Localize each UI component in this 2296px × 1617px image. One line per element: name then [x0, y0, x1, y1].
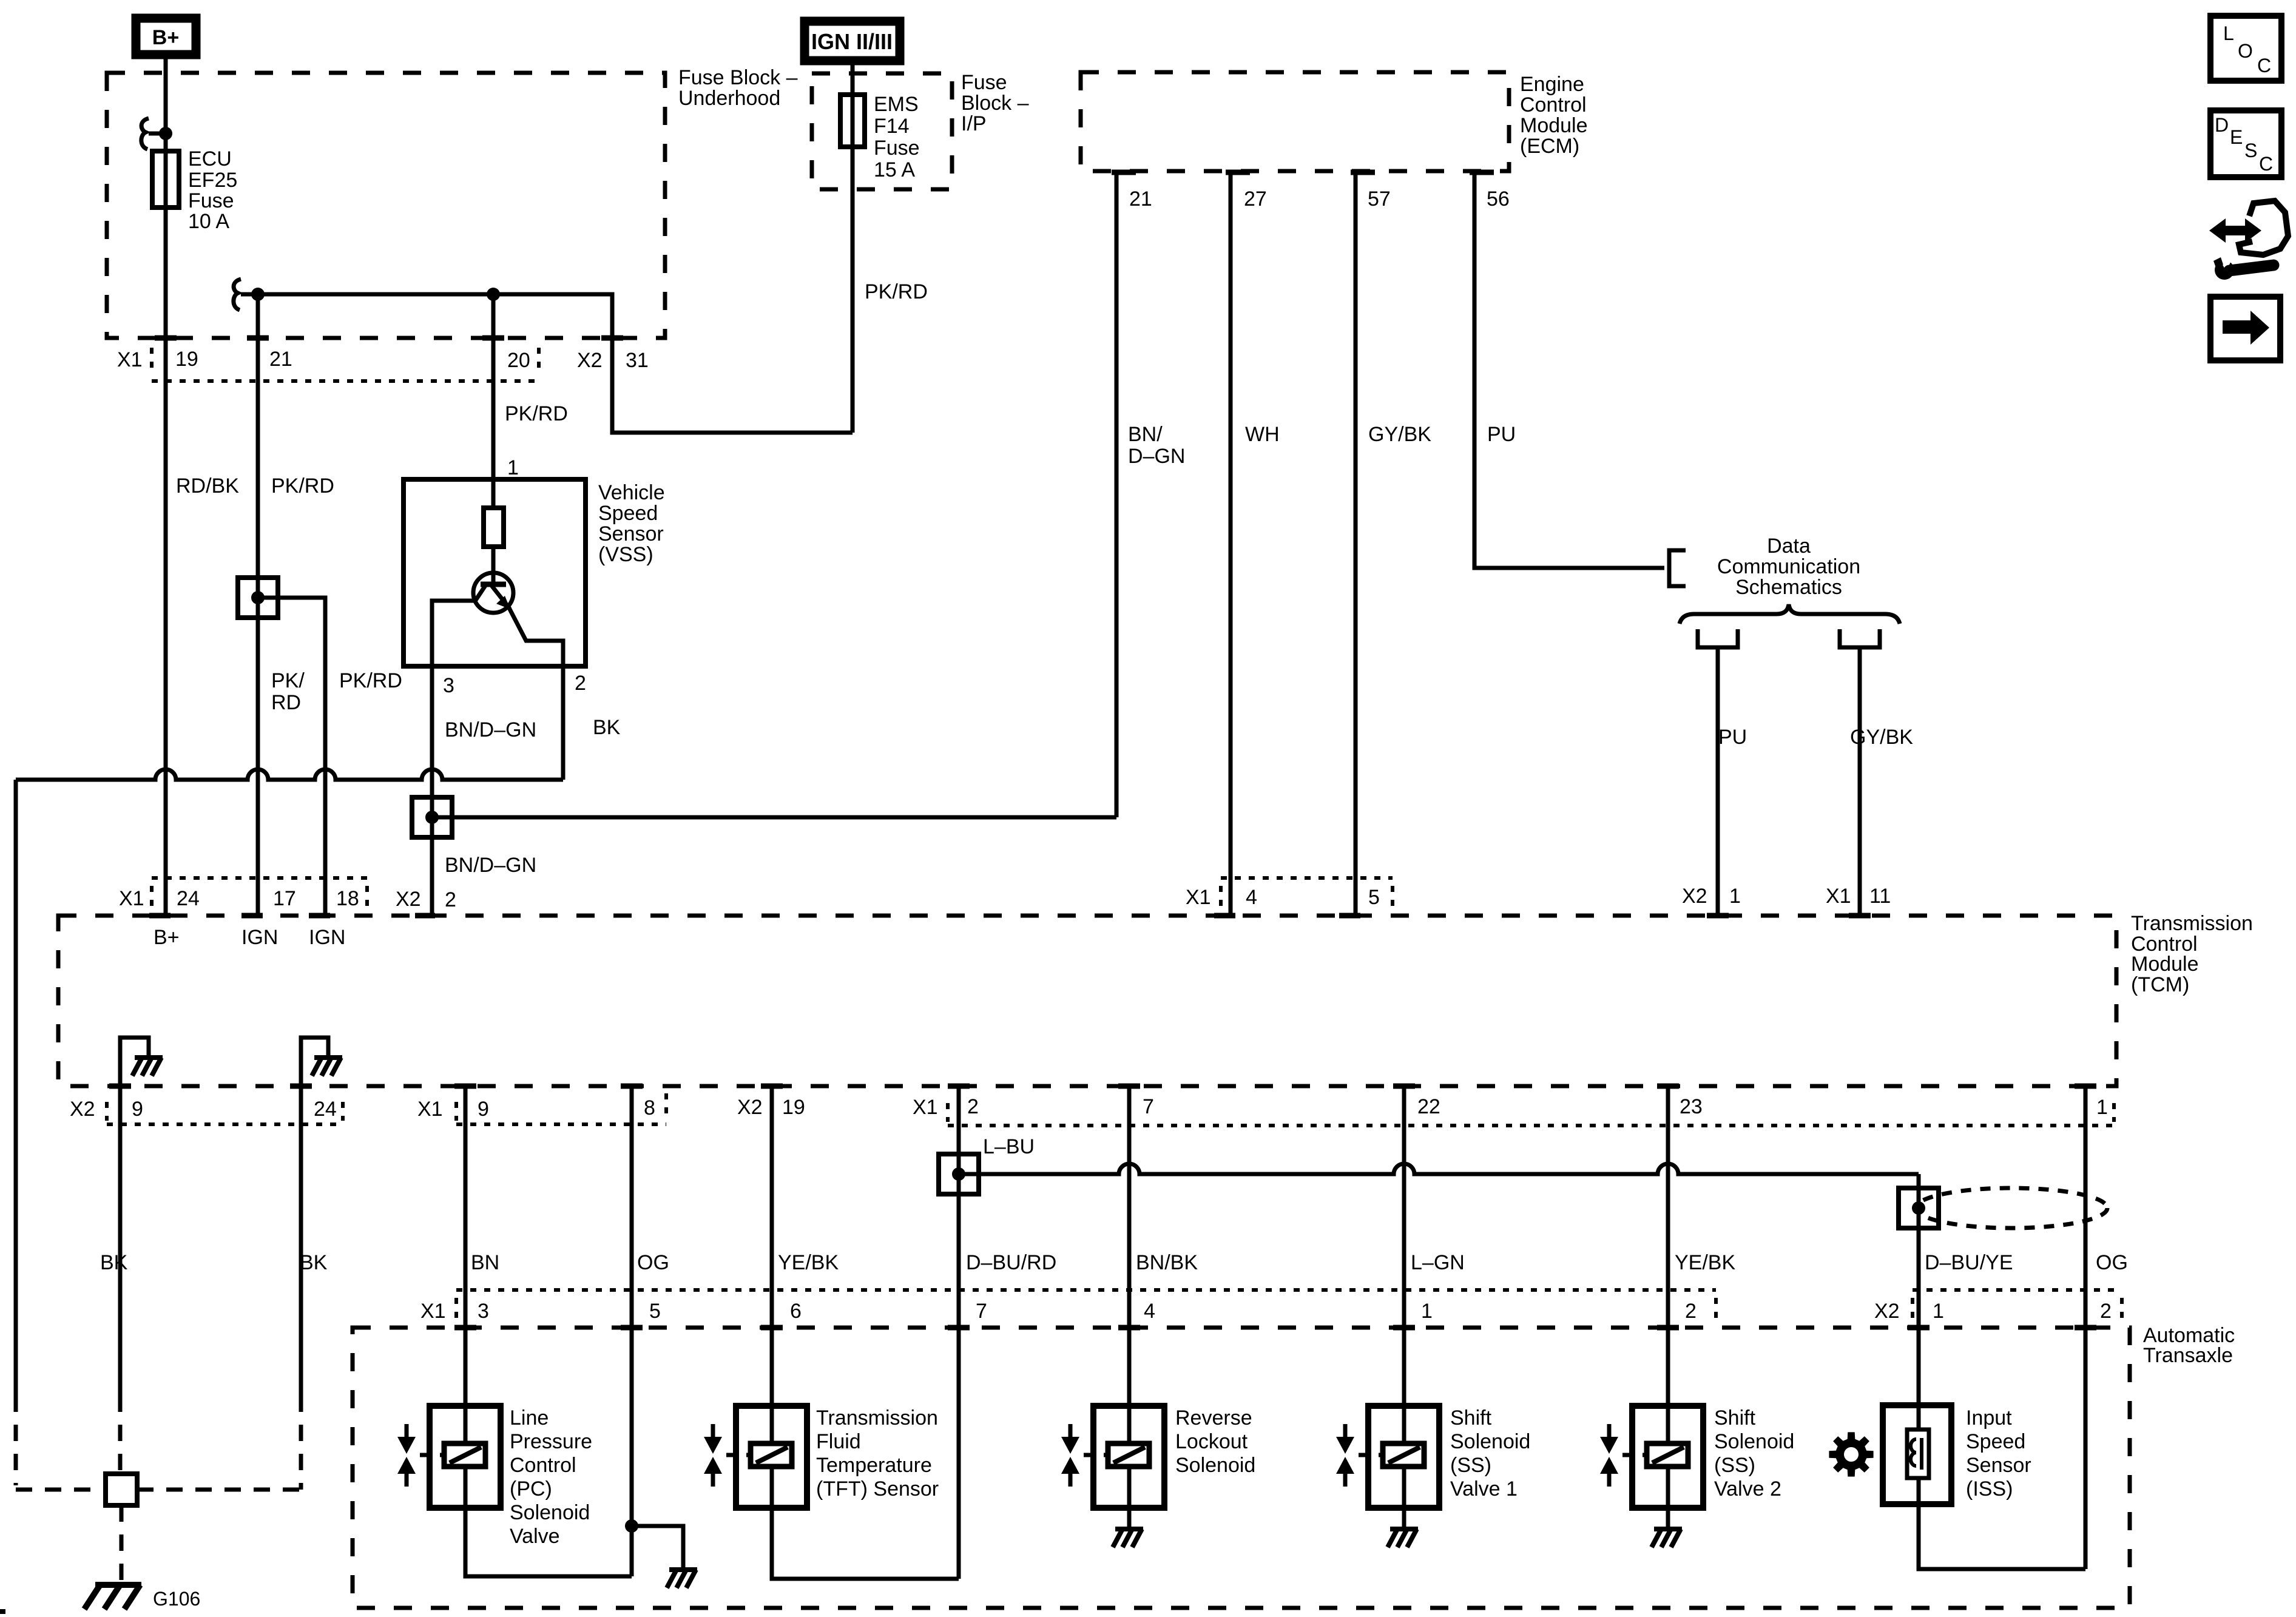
check valve of TFT sensor — [704, 1424, 722, 1487]
shift solenoid valve 2 — [1622, 1406, 1703, 1508]
svg-text:Sensor: Sensor — [598, 522, 664, 545]
svg-text:IGN: IGN — [309, 926, 345, 949]
svg-text:X1: X1 — [117, 348, 143, 371]
Fuse Block Underhood box — [107, 73, 665, 338]
svg-text:Underhood: Underhood — [678, 87, 780, 110]
wire BK TCM X2/24 to G106 — [299, 1086, 303, 1396]
svg-text:WH: WH — [1245, 423, 1280, 446]
node: branch junction dots — [251, 288, 265, 301]
gear icon — [1829, 1432, 1873, 1476]
svg-text:Vehicle: Vehicle — [598, 481, 665, 504]
wire PK/RD to TCM X1/18 — [258, 598, 325, 916]
wire OG TCM X1/8 to internal ground — [630, 1086, 634, 1576]
svg-text:RD: RD — [271, 691, 301, 714]
wire L-BU bus to ISS splice — [959, 1164, 1919, 1174]
wire BK VSS2 to G106 run — [16, 769, 563, 780]
wire PC solenoid low side — [465, 1508, 632, 1576]
svg-text:Fuse: Fuse — [188, 189, 234, 212]
svg-text:X2: X2 — [577, 349, 603, 372]
svg-text:BN/BK: BN/BK — [1136, 1251, 1198, 1274]
brace — [1680, 604, 1900, 624]
wire PU to TCM X2/1 — [1716, 647, 1720, 916]
ground G106 — [84, 1585, 141, 1609]
wire B+ RD/BK (fuse 19 to TCM X1/24) — [164, 55, 168, 916]
svg-text:3: 3 — [478, 1300, 489, 1323]
svg-text:X2: X2 — [737, 1096, 763, 1119]
svg-text:9: 9 — [478, 1098, 489, 1121]
DESC icon — [2210, 110, 2281, 177]
svg-text:24: 24 — [177, 887, 200, 910]
splice D-BU/YE to ISS — [1899, 1188, 1939, 1228]
svg-text:Fuse Block –: Fuse Block – — [678, 66, 798, 89]
svg-text:Speed: Speed — [598, 502, 658, 525]
wire BN/BK TCM X1/7 to reverse lockout — [1127, 1086, 1132, 1406]
ECM pin 27 wire WH — [1226, 170, 1250, 175]
svg-text:X1: X1 — [119, 887, 144, 910]
svg-text:(ECM): (ECM) — [1520, 135, 1579, 158]
svg-text:IGN II/III: IGN II/III — [811, 29, 893, 54]
svg-text:RD/BK: RD/BK — [176, 474, 239, 498]
clip at fuse block branch — [234, 279, 241, 310]
svg-text:Solenoid: Solenoid — [510, 1501, 590, 1524]
svg-text:Transaxle: Transaxle — [2143, 1344, 2233, 1367]
svg-text:Control: Control — [1520, 93, 1587, 116]
svg-text:Data: Data — [1767, 535, 1811, 558]
svg-text:(SS): (SS) — [1450, 1454, 1491, 1477]
wire PK/RD 21 to TCM X1/17 — [256, 294, 260, 916]
connector row fuse block underhood — [117, 338, 649, 381]
svg-text:X2: X2 — [1874, 1300, 1900, 1323]
svg-text:X1: X1 — [420, 1300, 446, 1323]
svg-text:D: D — [2215, 114, 2229, 136]
svg-text:Line: Line — [510, 1406, 549, 1430]
svg-text:L–BU: L–BU — [983, 1135, 1035, 1158]
svg-text:G106: G106 — [153, 1588, 200, 1610]
ISS low side run — [1919, 1504, 2085, 1569]
check valve of reverse lockout solenoid — [1061, 1424, 1079, 1487]
svg-text:Solenoid: Solenoid — [1175, 1454, 1255, 1477]
svg-text:X1: X1 — [1826, 885, 1851, 908]
SS2 ground — [1666, 1508, 1670, 1528]
ECM pin 21 wire BN/D-GN — [1112, 170, 1136, 175]
off-page connector to data schematics — [1669, 550, 1686, 586]
svg-text:EF25: EF25 — [188, 169, 237, 192]
svg-text:D–BU/RD: D–BU/RD — [966, 1251, 1056, 1274]
svg-text:10 A: 10 A — [188, 210, 229, 233]
svg-text:PU: PU — [1487, 423, 1516, 446]
svg-text:OG: OG — [2096, 1251, 2128, 1274]
LOC icon — [2210, 16, 2281, 81]
svg-text:22: 22 — [1417, 1095, 1440, 1118]
svg-text:D–BU/YE: D–BU/YE — [1925, 1251, 2013, 1274]
svg-text:Schematics: Schematics — [1735, 576, 1842, 599]
reverse lockout ground — [1127, 1508, 1132, 1528]
svg-text:18: 18 — [336, 887, 359, 910]
svg-text:(PC): (PC) — [510, 1477, 552, 1501]
line pressure control solenoid — [420, 1406, 501, 1508]
svg-text:OG: OG — [637, 1251, 669, 1274]
svg-text:Transmission: Transmission — [816, 1406, 938, 1430]
svg-text:(TCM): (TCM) — [2131, 973, 2189, 996]
svg-text:Fuse: Fuse — [961, 71, 1007, 94]
TCM internal ground X2/9 — [120, 1038, 149, 1086]
svg-text:X2: X2 — [1682, 885, 1707, 908]
svg-text:PK/RD: PK/RD — [865, 280, 928, 303]
wire GY/BK to TCM X1/11 — [1858, 647, 1862, 916]
wire BK TCM X2/9 to G106 — [118, 1086, 123, 1396]
svg-text:BN: BN — [471, 1251, 499, 1274]
svg-text:2: 2 — [967, 1095, 979, 1118]
svg-text:X1: X1 — [913, 1096, 938, 1119]
splice L-BU on X1/2 wire — [939, 1154, 979, 1194]
TCM internal ground X2/24 — [301, 1038, 328, 1086]
svg-text:BK: BK — [100, 1251, 128, 1274]
next page arrow icon — [2210, 297, 2280, 360]
svg-text:(SS): (SS) — [1714, 1454, 1755, 1477]
svg-text:PK/: PK/ — [271, 669, 305, 692]
splice BN/D-GN to ECM 21 — [412, 797, 452, 837]
TCM bottom connector X2/19 — [737, 1086, 805, 1119]
Input Speed Sensor (ISS) — [1917, 1405, 1921, 1504]
svg-text:Communication: Communication — [1717, 555, 1860, 578]
svg-text:2: 2 — [445, 888, 456, 911]
svg-text:19: 19 — [782, 1096, 805, 1119]
wire PK/RD 20 to VSS pin 1 — [491, 294, 496, 479]
svg-text:C: C — [2259, 153, 2273, 175]
Data Communication Schematics callout — [1717, 535, 1860, 599]
svg-text:YE/BK: YE/BK — [1675, 1251, 1735, 1274]
svg-text:F14: F14 — [874, 115, 910, 138]
svg-text:X2: X2 — [70, 1098, 95, 1121]
svg-text:4: 4 — [1246, 886, 1257, 909]
TCM bottom connector row X1 2 7 22 23 1 — [913, 1086, 2114, 1126]
svg-text:6: 6 — [790, 1300, 802, 1323]
svg-text:C: C — [2257, 55, 2271, 76]
data comm connector cups — [1698, 629, 1738, 647]
svg-text:Input: Input — [1966, 1406, 2012, 1430]
svg-text:E: E — [2230, 126, 2243, 148]
wire EMS fuse feed PK/RD — [851, 59, 855, 433]
svg-text:BK: BK — [300, 1251, 328, 1274]
VSS pin 3 lead — [432, 601, 477, 666]
svg-text:IGN: IGN — [241, 926, 278, 949]
svg-text:(TFT) Sensor: (TFT) Sensor — [816, 1477, 939, 1501]
svg-text:5: 5 — [1368, 886, 1380, 909]
svg-text:Pressure: Pressure — [510, 1430, 592, 1453]
wire: branch bus inside fuse block — [258, 294, 853, 433]
svg-text:Transmission: Transmission — [2131, 912, 2253, 935]
svg-text:2: 2 — [575, 672, 586, 695]
ECM pin 57 wire GY/BK — [1351, 170, 1375, 175]
svg-text:9: 9 — [132, 1098, 143, 1121]
svg-text:BN/D–GN: BN/D–GN — [445, 718, 536, 741]
svg-text:56: 56 — [1487, 187, 1510, 211]
junction dot — [159, 127, 172, 140]
svg-text:X1: X1 — [417, 1098, 443, 1121]
svg-text:21: 21 — [1129, 187, 1152, 211]
svg-text:Solenoid: Solenoid — [1714, 1430, 1794, 1453]
TCM top connector row X1 24 17 18 / X2 2 — [119, 878, 456, 916]
power terminal B+ — [136, 18, 196, 55]
svg-text:15 A: 15 A — [874, 158, 915, 181]
svg-text:Engine: Engine — [1520, 73, 1584, 96]
svg-text:Module: Module — [1520, 114, 1588, 137]
wire OG TCM X1/1 to ISS low side — [2084, 1086, 2088, 1569]
page corner mark — [0, 1609, 5, 1614]
svg-text:L–GN: L–GN — [1411, 1251, 1465, 1274]
svg-text:1: 1 — [1729, 885, 1741, 908]
adjust/wrench icon — [2209, 201, 2288, 280]
VSS pin 2 lead — [508, 607, 563, 666]
svg-text:2: 2 — [2100, 1300, 2112, 1323]
TCM bottom connector row X1 9 8 — [417, 1086, 666, 1124]
TFT sensor — [726, 1406, 807, 1508]
svg-text:PK/RD: PK/RD — [339, 669, 402, 692]
svg-text:PU: PU — [1718, 726, 1747, 749]
TCM bottom connector row X2 9 24 — [70, 1086, 343, 1124]
svg-text:Fluid: Fluid — [816, 1430, 861, 1453]
wire YE/BK TCM X1/23 to SS2 — [1666, 1086, 1670, 1406]
TCM top connector row X1 4 5 — [1186, 878, 1393, 916]
svg-text:7: 7 — [976, 1300, 987, 1323]
svg-text:O: O — [2238, 40, 2253, 62]
Fuse Block I/P box — [812, 73, 952, 189]
svg-text:Valve 1: Valve 1 — [1450, 1477, 1518, 1501]
svg-text:1: 1 — [1933, 1300, 1944, 1323]
svg-text:BN/: BN/ — [1128, 423, 1163, 446]
svg-text:EMS: EMS — [874, 93, 919, 116]
svg-text:31: 31 — [626, 349, 649, 372]
G106 junction square — [106, 1474, 137, 1505]
wire YE/BK TCM X2/19 to TFT — [770, 1086, 774, 1406]
svg-text:X1: X1 — [1186, 886, 1211, 909]
transaxle connector row X1 3 5 6 7 4 1 2 — [420, 1290, 1716, 1328]
svg-text:YE/BK: YE/BK — [778, 1251, 839, 1274]
reverse lockout solenoid — [1084, 1406, 1164, 1508]
svg-text:L: L — [2223, 22, 2234, 44]
resistor in VSS — [491, 479, 496, 508]
svg-text:Module: Module — [2131, 953, 2199, 976]
transaxle connector row X2 1 2 — [1874, 1290, 2122, 1328]
svg-text:Valve: Valve — [510, 1525, 560, 1548]
Vehicle Speed Sensor (VSS) box — [403, 479, 586, 666]
svg-text:20: 20 — [507, 349, 530, 372]
ECM pin 56 wire PU — [1470, 170, 1494, 175]
Engine Control Module (ECM) box — [1081, 72, 1509, 171]
svg-text:ECU: ECU — [188, 147, 232, 170]
wire BN TCM X1/9 to PC solenoid — [464, 1086, 468, 1406]
svg-text:Sensor: Sensor — [1966, 1454, 2031, 1477]
svg-text:57: 57 — [1368, 187, 1391, 211]
SS1 ground — [1402, 1508, 1406, 1528]
svg-text:Valve 2: Valve 2 — [1714, 1477, 1781, 1501]
svg-text:Lockout: Lockout — [1175, 1430, 1248, 1453]
fuse EMS F14 15A — [840, 95, 865, 147]
Transmission Control Module (TCM) box — [58, 916, 2116, 1086]
svg-text:7: 7 — [1143, 1095, 1154, 1118]
svg-text:2: 2 — [1685, 1300, 1697, 1323]
svg-text:21: 21 — [269, 348, 292, 371]
svg-text:23: 23 — [1680, 1095, 1703, 1118]
svg-text:Fuse: Fuse — [874, 137, 920, 160]
splice on PK/RD — [238, 578, 278, 618]
svg-text:Solenoid: Solenoid — [1450, 1430, 1530, 1453]
transistor (hall element) in VSS — [473, 573, 513, 613]
clip at B+ feed — [141, 118, 149, 149]
svg-text:1: 1 — [2096, 1096, 2108, 1119]
svg-text:B+: B+ — [152, 26, 179, 49]
svg-text:(VSS): (VSS) — [598, 543, 653, 566]
svg-text:Shift: Shift — [1450, 1406, 1492, 1430]
svg-text:27: 27 — [1244, 187, 1267, 211]
wire BN/D-GN VSS3 to TCM X2/2 — [430, 666, 434, 916]
svg-text:1: 1 — [507, 456, 519, 479]
check valve of shift solenoid valve 1 — [1336, 1424, 1354, 1487]
svg-text:D–GN: D–GN — [1128, 445, 1185, 468]
svg-text:Speed: Speed — [1966, 1430, 2025, 1453]
power terminal IGN II/III — [805, 21, 900, 61]
svg-text:Shift: Shift — [1714, 1406, 1756, 1430]
wire D-BU/RD TCM X1/2 to TFT low side — [957, 1086, 961, 1579]
svg-text:I/P: I/P — [961, 112, 987, 135]
Automatic Transaxle box — [353, 1328, 2130, 1608]
check valve of line pressure control solenoid — [397, 1424, 416, 1487]
svg-text:GY/BK: GY/BK — [1368, 423, 1431, 446]
svg-text:3: 3 — [443, 674, 454, 697]
svg-text:GY/BK: GY/BK — [1850, 726, 1913, 749]
svg-text:Temperature: Temperature — [816, 1454, 932, 1477]
svg-text:24: 24 — [314, 1098, 337, 1121]
svg-text:Block –: Block – — [961, 92, 1029, 115]
svg-text:5: 5 — [649, 1300, 661, 1323]
svg-text:Reverse: Reverse — [1175, 1406, 1252, 1430]
shift solenoid valve 1 — [1359, 1406, 1439, 1508]
svg-text:17: 17 — [273, 887, 296, 910]
svg-text:PK/RD: PK/RD — [271, 474, 334, 498]
check valve of shift solenoid valve 2 — [1600, 1424, 1618, 1487]
svg-text:BK: BK — [593, 716, 621, 739]
svg-text:X2: X2 — [396, 888, 421, 911]
svg-text:Control: Control — [510, 1454, 576, 1477]
svg-text:S: S — [2244, 140, 2257, 161]
wire L-GN TCM X1/22 to SS1 — [1402, 1086, 1406, 1406]
svg-text:BN/D–GN: BN/D–GN — [445, 854, 536, 877]
svg-text:1: 1 — [1421, 1300, 1433, 1323]
TCM top connector X2/1 X1/11 — [1682, 885, 1891, 916]
svg-text:19: 19 — [175, 348, 198, 371]
fuse ECU EF25 10A — [152, 151, 179, 208]
svg-text:B+: B+ — [154, 926, 180, 949]
twisted pair ellipse — [1916, 1188, 2107, 1228]
svg-text:(ISS): (ISS) — [1966, 1477, 2013, 1501]
svg-text:PK/RD: PK/RD — [505, 402, 568, 425]
TFT low side run — [772, 1508, 959, 1579]
svg-text:4: 4 — [1144, 1300, 1155, 1323]
wire D-BU/YE to ISS pin 1 — [1917, 1188, 1921, 1405]
svg-text:11: 11 — [1869, 885, 1891, 908]
svg-text:8: 8 — [644, 1096, 655, 1119]
